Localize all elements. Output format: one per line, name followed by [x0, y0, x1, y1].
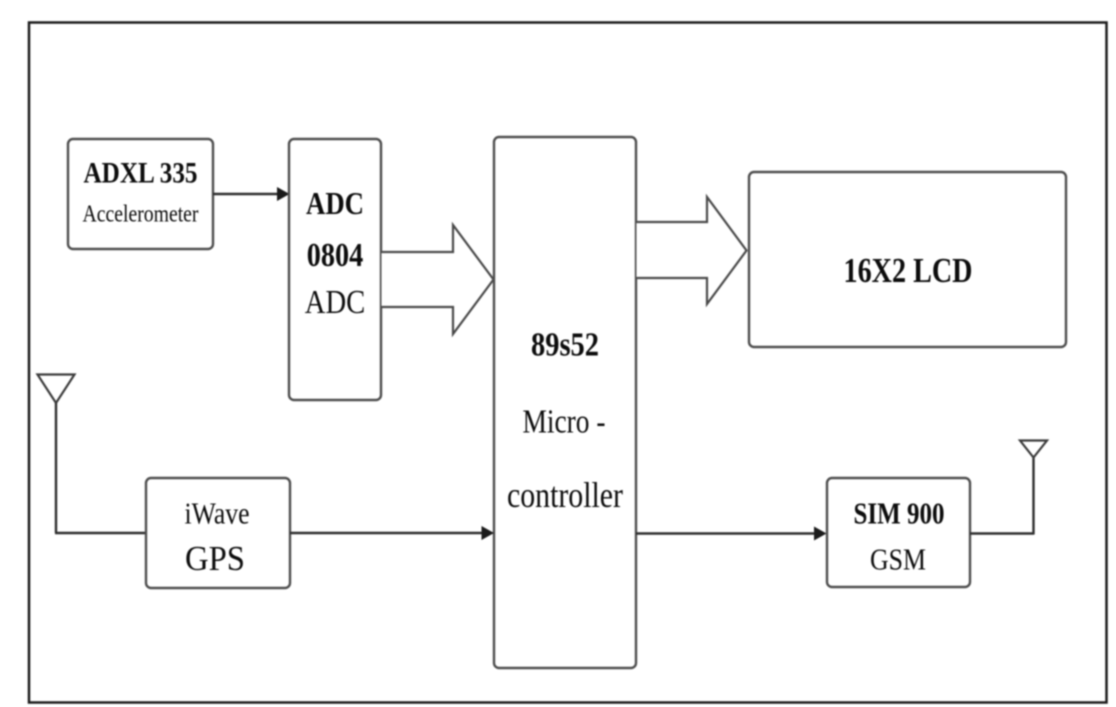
wire antenna down: [55, 403, 57, 533]
arrowhead into GSM: [814, 527, 827, 541]
wire GPS to microcontroller: [290, 532, 486, 534]
svg-text:GPS: GPS: [185, 539, 245, 578]
svg-text:Accelerometer: Accelerometer: [83, 202, 199, 228]
wire GSM to right antenna: [970, 532, 1034, 534]
block 16X2 LCD: [749, 172, 1066, 347]
svg-text:0804: 0804: [307, 237, 364, 274]
antenna left: [38, 375, 75, 404]
svg-text:controller: controller: [507, 475, 623, 515]
block ADC 0804: [289, 139, 381, 400]
block arrow ADC to microcontroller: [382, 225, 494, 334]
block iWave GPS: [146, 478, 290, 588]
svg-text:iWave: iWave: [185, 496, 250, 531]
block 89s52 microcontroller: [494, 137, 636, 668]
arrowhead into microcontroller: [482, 526, 495, 540]
svg-text:ADXL 335: ADXL 335: [84, 157, 198, 190]
wire antenna to GPS: [55, 532, 146, 534]
svg-text:ADC: ADC: [305, 284, 366, 321]
svg-text:GSM: GSM: [870, 542, 926, 577]
block SIM 900 GSM: [827, 478, 970, 587]
block arrow microcontroller to LCD: [637, 197, 747, 304]
svg-text:16X2 LCD: 16X2 LCD: [844, 251, 973, 290]
wire microcontroller to GSM: [636, 532, 818, 534]
svg-text:89s52: 89s52: [531, 327, 599, 364]
svg-text:SIM 900: SIM 900: [854, 496, 945, 531]
antenna right: [1020, 441, 1047, 458]
svg-text:Micro -: Micro -: [523, 404, 606, 441]
wire ADXL to ADC: [213, 193, 281, 195]
wire right antenna up: [1032, 457, 1034, 535]
block ADXL 335 Accelerometer: [68, 139, 213, 249]
svg-text:ADC: ADC: [306, 185, 364, 221]
arrowhead into ADC: [277, 187, 290, 201]
